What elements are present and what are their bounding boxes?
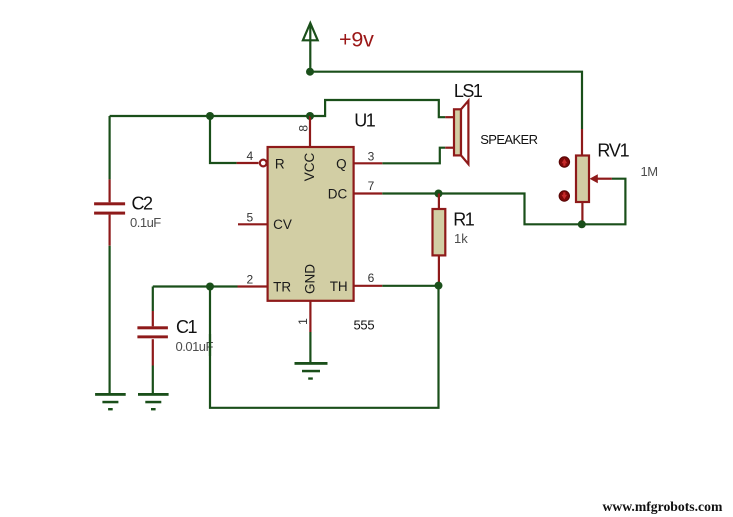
svg-text:SPEAKER: SPEAKER (480, 132, 537, 147)
node left-rail / pin4 branch (206, 112, 214, 120)
svg-text:7: 7 (368, 179, 375, 193)
IC U1 555 timer (268, 147, 354, 301)
svg-text:1M: 1M (641, 164, 658, 179)
speaker bottom stub (445, 147, 454, 149)
wire DC to pot bottom (382, 194, 582, 225)
svg-text:DC: DC (328, 186, 348, 201)
ground under C2 (95, 393, 126, 410)
svg-text:GND: GND (303, 264, 318, 294)
svg-text:VCC: VCC (302, 153, 317, 182)
pin 2 stub (238, 285, 269, 287)
svg-text:TH: TH (330, 279, 348, 294)
pin 1 lead (309, 301, 311, 362)
ground under 555 (295, 362, 328, 380)
pot down button (559, 191, 569, 201)
capacitor C2 (94, 116, 125, 394)
wire left rail (110, 115, 310, 117)
capacitor C1 (137, 287, 168, 394)
pin 3 stub (354, 162, 382, 164)
svg-text:C2: C2 (132, 194, 153, 214)
node TH / R1 bottom (435, 282, 443, 290)
svg-text:4: 4 (246, 149, 253, 163)
pot up button (559, 157, 569, 167)
svg-text:www.mfgrobots.com: www.mfgrobots.com (603, 499, 723, 514)
svg-text:6: 6 (368, 271, 375, 285)
pin 7 stub (354, 192, 382, 194)
svg-text:1k: 1k (454, 231, 468, 246)
wire top rail (310, 72, 582, 129)
wire TH to R1 bottom (382, 285, 438, 287)
potentiometer RV1 (576, 129, 612, 224)
svg-text:555: 555 (354, 318, 375, 333)
wire to pin 4 (210, 116, 237, 163)
svg-text:CV: CV (273, 217, 292, 232)
svg-text:+9v: +9v (339, 28, 374, 52)
pin 8 lead (309, 116, 311, 147)
pin 6 stub (354, 285, 382, 287)
pin 4 inversion bubble (260, 160, 267, 167)
speaker LS1 (454, 101, 468, 164)
pin 4 stub (237, 162, 259, 164)
wire Q to speaker bottom (382, 148, 445, 164)
svg-text:2: 2 (246, 272, 253, 286)
node left-rail / vcc (306, 112, 314, 120)
svg-text:8: 8 (296, 125, 310, 132)
svg-text:C1: C1 (176, 317, 197, 337)
svg-text:3: 3 (368, 149, 375, 163)
svg-text:Q: Q (336, 157, 347, 172)
svg-text:0.01uF: 0.01uF (176, 339, 214, 354)
node pot bottom (578, 220, 586, 228)
speaker top stub (445, 116, 454, 118)
pin 5 stub (238, 223, 269, 225)
wire overlay over C1 value (209, 334, 211, 356)
node top rail (306, 68, 314, 76)
svg-text:TR: TR (273, 279, 291, 294)
power +9v symbol (303, 23, 318, 72)
svg-text:1: 1 (296, 318, 310, 325)
svg-text:5: 5 (246, 210, 253, 224)
svg-text:RV1: RV1 (597, 140, 629, 160)
node TR (206, 283, 214, 291)
svg-text:LS1: LS1 (454, 81, 483, 101)
wire TR node (153, 285, 238, 287)
svg-text:R: R (275, 157, 285, 172)
wire to speaker top (310, 100, 445, 117)
wire wiper loop (582, 179, 626, 225)
wire bottom loop (210, 286, 439, 408)
node DC / R1 top (435, 190, 443, 198)
ground under C1 (138, 393, 169, 410)
svg-text:U1: U1 (354, 111, 375, 131)
svg-text:0.1uF: 0.1uF (130, 215, 161, 230)
resistor R1 (433, 194, 446, 286)
svg-text:R1: R1 (453, 210, 474, 230)
